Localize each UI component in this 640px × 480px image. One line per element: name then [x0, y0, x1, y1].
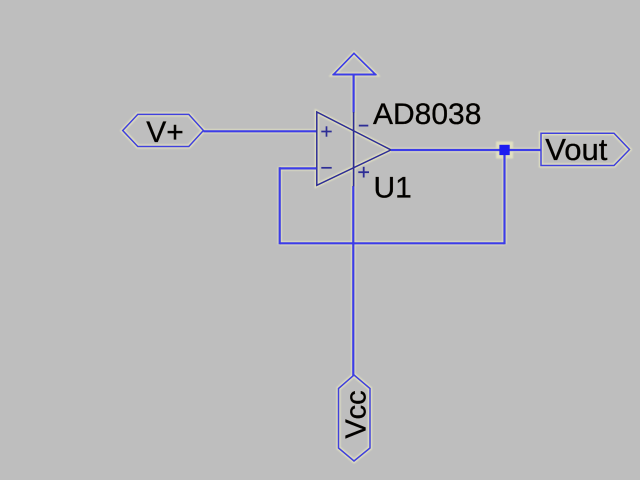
net label Vcc	[339, 375, 373, 461]
pin label + (bottom supply pin V+)	[358, 167, 369, 178]
power symbol (supply arrow)	[333, 53, 376, 74]
wire halo underlay (jpeg-style fringe)	[123, 53, 630, 461]
wire: feedback left vertical	[279, 167, 281, 244]
non-inverting input mark +	[321, 126, 331, 136]
net label Vout	[541, 132, 630, 167]
value label AD8038	[373, 98, 481, 131]
wire: V+ to non-inverting input	[203, 130, 316, 132]
wire: feedback bottom horizontal	[280, 242, 505, 244]
svg-text:AD8038: AD8038	[373, 98, 481, 131]
svg-text:U1: U1	[374, 172, 412, 205]
junction node	[499, 145, 509, 155]
pin label - (top supply pin V-)	[359, 125, 369, 127]
wire: feedback right vertical (output down)	[503, 150, 505, 244]
op-amp U1 (AD8038)	[317, 112, 391, 185]
wire: supply arrow to op-amp top pin	[353, 75, 355, 113]
wire: op-amp output to Vout	[391, 149, 541, 151]
svg-text:V+: V+	[146, 116, 184, 149]
op-amp power pin line (vertical through body)	[353, 112, 355, 186]
inverting input mark -	[321, 167, 331, 169]
wire: inverting input stub (feedback top)	[280, 167, 317, 169]
svg-text:Vcc: Vcc	[340, 390, 372, 438]
svg-text:Vout: Vout	[545, 132, 607, 167]
refdes label U1	[374, 172, 412, 205]
net label V+	[123, 114, 204, 148]
wire: op-amp bottom pin to Vcc label	[352, 186, 354, 376]
